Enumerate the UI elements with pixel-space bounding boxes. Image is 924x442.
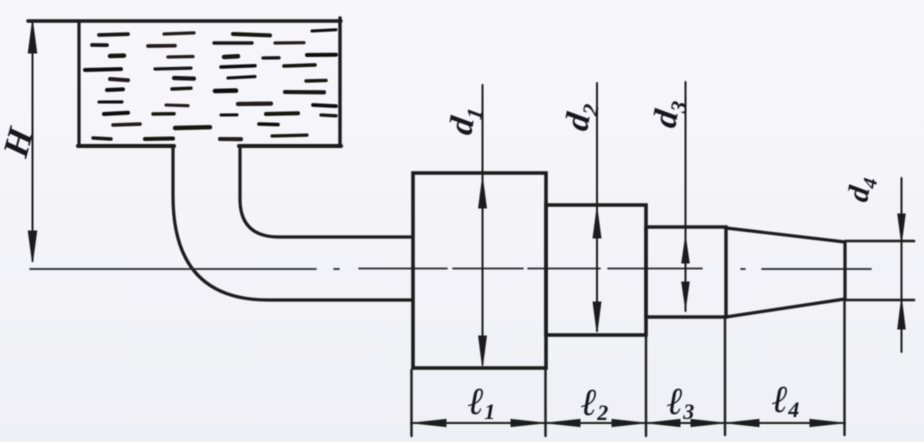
dimension line l (bottom) [411,422,845,424]
wire: tank bottom left segment [78,144,174,148]
pipe section 3 (d3) [646,227,726,317]
dimension d1: arrow up [479,178,487,208]
extension line l2/l3 [645,337,647,436]
svg-text:d4: d4 [841,174,882,205]
dimension d3: arrow up [682,237,689,263]
dimension d4: arrow down to top wall [898,214,905,242]
dimension d2: line [596,83,598,331]
pipe section 4: outlet bottom wall [845,299,914,302]
node A: tank left wall [77,21,80,146]
pipe section 4: outlet top wall [845,240,914,243]
dimension d1: line [482,85,484,364]
dimension d1: arrow down [479,336,487,366]
svg-text:H: H [0,123,41,162]
liquid hatching [85,30,336,140]
wire: downpipe outer wall with bend [173,146,411,300]
arrow l1 left [413,419,446,426]
pipe section 1 (d1) [413,173,546,368]
pipe section 4: taper cone [726,228,845,317]
wire: liquid surface / tank top line [28,19,341,22]
svg-text:ℓ2: ℓ2 [581,382,608,425]
svg-text:ℓ3: ℓ3 [667,381,694,424]
arrow l4 right [810,419,843,426]
wire: downpipe inner wall with bend [240,146,411,237]
arrow l2 right [612,419,645,426]
dimension d4: line [901,178,903,352]
node B: tank right wall [338,18,341,146]
dimension H: arrow down [28,231,36,262]
dimension d2: arrow down [593,302,601,332]
pipe section 2 (d2) [546,205,646,335]
extension line l3/l4 [724,319,726,435]
dimension H: arrow up [28,21,36,53]
centerline [30,268,871,271]
arrow l1 right [511,419,544,426]
arrow l4 left [727,419,760,426]
dimension d3: line [685,82,687,311]
svg-text:ℓ4: ℓ4 [772,379,799,422]
extension line l4 right [843,301,845,435]
dimension d3: arrow down [682,282,689,308]
extension line l1 left [410,370,412,436]
arrow l2 left [547,419,580,426]
dimension H: line [32,23,34,261]
dimension d2: arrow up [593,208,601,238]
wire: tank bottom right segment [239,144,341,148]
arrow l3 right [691,419,724,426]
arrow l3 left [648,419,681,426]
extension line l1/l2 [544,370,546,436]
dimension d4: arrow up to bottom wall [898,299,905,329]
svg-text:ℓ1: ℓ1 [468,381,495,424]
svg-text:d1: d1 [442,103,487,138]
